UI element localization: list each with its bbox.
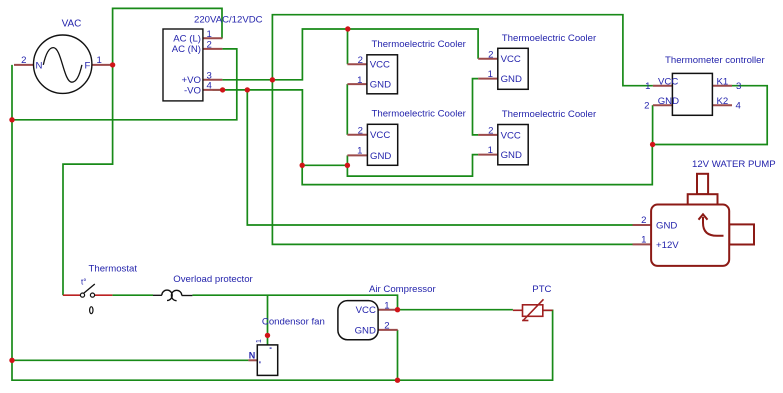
junction +VO rail	[270, 77, 275, 82]
pin 2 (N) stub	[14, 64, 34, 66]
svg-text:GND: GND	[501, 150, 522, 161]
junction top rail	[345, 26, 350, 31]
svg-text:4: 4	[736, 101, 742, 112]
svg-text:Air Compressor: Air Compressor	[369, 284, 436, 295]
svg-text:-VO: -VO	[184, 85, 201, 96]
pin 2 stub	[478, 134, 498, 136]
wire drop to TEC1 VCC	[347, 29, 349, 64]
thermistor diagonal	[523, 299, 543, 320]
wire overload protector to compressor VCC node	[192, 295, 397, 310]
right lead	[543, 309, 553, 311]
air compressor M3	[338, 284, 437, 340]
svg-text:Thermoelectric Cooler: Thermoelectric Cooler	[502, 33, 597, 44]
wire thermometer GND	[652, 105, 654, 144]
svg-text:VCC: VCC	[370, 60, 390, 71]
pin 2 stub	[347, 134, 367, 136]
junction -VO pin end	[220, 87, 225, 92]
junction compressor GND on bottom rail	[395, 378, 400, 383]
pin 2 GND stub	[378, 329, 398, 331]
svg-text:GND: GND	[501, 74, 522, 85]
svg-text:2: 2	[488, 49, 493, 60]
pin 1 stub	[478, 154, 498, 156]
svg-text:N: N	[249, 351, 256, 361]
svg-text:VCC: VCC	[658, 76, 678, 87]
wire condensor fan pin up to motor line	[267, 295, 269, 335]
right contact circle	[90, 293, 94, 297]
junction VCC node	[395, 307, 400, 312]
svg-text:F: F	[85, 61, 91, 72]
svg-text:1: 1	[641, 235, 646, 246]
left lead stub	[63, 294, 80, 296]
wire bottom rail to PTC right	[12, 310, 553, 380]
pin 3 K1 stub	[712, 85, 732, 87]
tiny pin mark top	[270, 348, 272, 349]
svg-text:GND: GND	[370, 151, 391, 162]
PTC thermistor	[513, 284, 553, 321]
svg-text:PTC: PTC	[532, 284, 551, 295]
pump top pipe	[697, 174, 708, 194]
thermostat switch	[63, 264, 137, 314]
wire compressor GND down to bottom rail	[397, 330, 399, 380]
svg-text:K2: K2	[717, 96, 729, 107]
svg-text:t°: t°	[81, 278, 86, 287]
svg-text:2: 2	[641, 215, 646, 226]
svg-text:Thermometer controller: Thermometer controller	[665, 55, 766, 66]
svg-text:VAC: VAC	[62, 19, 82, 30]
left lead	[513, 309, 523, 311]
body box	[498, 125, 528, 165]
pin 1 stub	[478, 78, 498, 80]
wire from node F down to thermostat left	[63, 65, 113, 295]
pump body	[651, 205, 729, 266]
svg-text:1: 1	[488, 145, 493, 156]
wire K1 loop	[653, 86, 768, 145]
svg-text:VCC: VCC	[356, 305, 376, 316]
junction GND/K1 node	[650, 142, 655, 147]
pin 2 GND stub	[633, 224, 652, 226]
svg-text:2: 2	[384, 320, 389, 331]
svg-text:1: 1	[384, 300, 389, 311]
thermoelectric cooler TEC1 (upper left)	[347, 39, 466, 94]
junction left rail	[9, 117, 14, 122]
svg-text:1: 1	[256, 339, 263, 343]
body box	[367, 124, 397, 165]
right lead	[182, 295, 193, 297]
svg-text:1: 1	[357, 145, 362, 156]
svg-text:AC (N): AC (N)	[172, 44, 201, 55]
12V water pump M1	[633, 159, 776, 266]
wire bottom to condensor fan N pin	[12, 359, 248, 361]
wire AC(N) to VAC N pin	[12, 49, 237, 120]
svg-text:Thermoelectric Cooler: Thermoelectric Cooler	[502, 109, 597, 120]
node A junction (-VO return)	[300, 163, 305, 168]
left pin N stub	[248, 359, 257, 361]
pin 2 stub	[347, 63, 367, 65]
resistor box	[523, 305, 543, 317]
svg-text:Overload protector: Overload protector	[173, 274, 253, 285]
svg-text:Condensor fan: Condensor fan	[262, 317, 325, 328]
body rounded box	[338, 301, 378, 340]
svg-text:1: 1	[207, 29, 212, 40]
svg-text:2: 2	[207, 40, 212, 51]
wire TEC1 GND to TEC2 VCC chain	[346, 84, 348, 135]
AC source VAC	[14, 19, 115, 94]
svg-text:3: 3	[736, 81, 741, 92]
body box	[367, 55, 398, 94]
svg-text:1: 1	[488, 69, 493, 80]
right lead stub	[95, 294, 113, 296]
top pin stub	[267, 335, 269, 345]
svg-text:N: N	[36, 60, 43, 71]
svg-text:220VAC/12VDC: 220VAC/12VDC	[194, 14, 263, 25]
VAC circle body	[34, 35, 92, 93]
svg-text:K1: K1	[717, 76, 729, 87]
svg-text:GND: GND	[370, 80, 391, 91]
thermoelectric cooler TEC2 (lower left)	[347, 108, 466, 165]
pin 1 (F) stub	[92, 64, 113, 66]
pump pipe base	[688, 194, 718, 204]
node B junction (TEC2 GND)	[345, 163, 350, 168]
svg-text:1: 1	[357, 75, 362, 86]
body box	[257, 345, 277, 376]
svg-text:2: 2	[358, 125, 363, 136]
pin 2 GND stub	[653, 104, 673, 106]
svg-text:2: 2	[644, 101, 649, 112]
wire thermostat to overload protector	[112, 294, 153, 296]
wire +VO rail to upper TEC VCCs	[222, 29, 478, 80]
junction on F node	[110, 62, 115, 67]
wire +12V rail: thermometer VCC, +VO node, water pump +12V	[272, 15, 653, 245]
pump rotation arrow	[703, 217, 724, 236]
svg-text:Thermoelectric Cooler: Thermoelectric Cooler	[372, 39, 467, 50]
power supply 220VAC/12VDC	[163, 14, 263, 101]
svg-text:AC (L): AC (L)	[173, 34, 201, 45]
pump right outlet	[729, 224, 754, 244]
overload protector	[153, 274, 254, 301]
svg-text:12V WATER PUMP: 12V WATER PUMP	[692, 159, 776, 170]
pin 2 stub	[478, 58, 498, 60]
pin 1 stub	[347, 154, 367, 156]
interlocked loop right	[171, 290, 181, 300]
sensor bulb ellipse	[90, 307, 93, 314]
svg-text:4: 4	[207, 81, 213, 92]
svg-text:1: 1	[97, 55, 102, 66]
svg-text:VCC: VCC	[501, 54, 521, 65]
body box	[672, 73, 712, 115]
thermometer controller U5	[644, 55, 765, 147]
wire pump GND rail	[247, 90, 632, 225]
pin 3 stub	[203, 79, 223, 81]
svg-text:VCC: VCC	[501, 130, 521, 141]
thermistor foot	[522, 320, 528, 322]
pin 1 stub	[203, 37, 223, 39]
wire TEC2 GND down to node	[346, 155, 348, 165]
pin 1 stub	[347, 83, 367, 85]
svg-text:2: 2	[488, 126, 493, 137]
svg-text:VCC: VCC	[370, 130, 390, 141]
thermoelectric cooler TEC3 (upper right)	[478, 33, 597, 90]
wire compressor VCC node to PTC left	[398, 309, 513, 311]
svg-text:1: 1	[645, 81, 650, 92]
pin 1 VCC stub	[653, 85, 673, 87]
svg-text:GND: GND	[658, 96, 679, 107]
pin 1 +12V stub	[633, 243, 652, 245]
interlocked loop left	[162, 290, 172, 300]
wire AC(L) loop from supply pin1 up/left down to VAC F pin	[113, 8, 222, 65]
svg-text:GND: GND	[656, 221, 677, 232]
junction bottom left rail	[9, 358, 14, 363]
wire node A to node B	[302, 164, 347, 166]
switch lever	[84, 284, 95, 293]
tiny pin mark left	[259, 361, 260, 363]
pump arrow head	[699, 214, 708, 219]
condensor fan M2	[248, 317, 324, 376]
thermoelectric cooler TEC4 (lower right)	[478, 109, 597, 165]
pin 4 K2 stub	[712, 104, 732, 106]
wire -VO rail to node A	[213, 90, 303, 165]
svg-text:2: 2	[358, 55, 363, 66]
body box	[498, 48, 528, 89]
left contact circle	[80, 293, 84, 297]
svg-text:GND: GND	[355, 325, 376, 336]
wire TEC3 GND to TEC4 VCC chain	[473, 79, 479, 135]
wire node A to thermometer GND node	[302, 145, 652, 185]
pin 2 stub	[203, 48, 223, 50]
sine wave	[43, 48, 82, 83]
junction fan pin	[265, 333, 270, 338]
junction -VO rail	[245, 87, 250, 92]
svg-text:Thermostat: Thermostat	[89, 264, 138, 275]
pin 1 VCC stub	[378, 309, 398, 311]
pin 4 stub	[203, 89, 223, 91]
svg-text:+12V: +12V	[656, 240, 679, 251]
wire node B to TEC4 GND	[347, 155, 478, 177]
left lead	[153, 294, 162, 296]
body box	[163, 29, 203, 101]
svg-text:2: 2	[21, 55, 26, 66]
svg-text:Thermoelectric Cooler: Thermoelectric Cooler	[372, 108, 467, 119]
wire left rail down	[11, 120, 13, 360]
